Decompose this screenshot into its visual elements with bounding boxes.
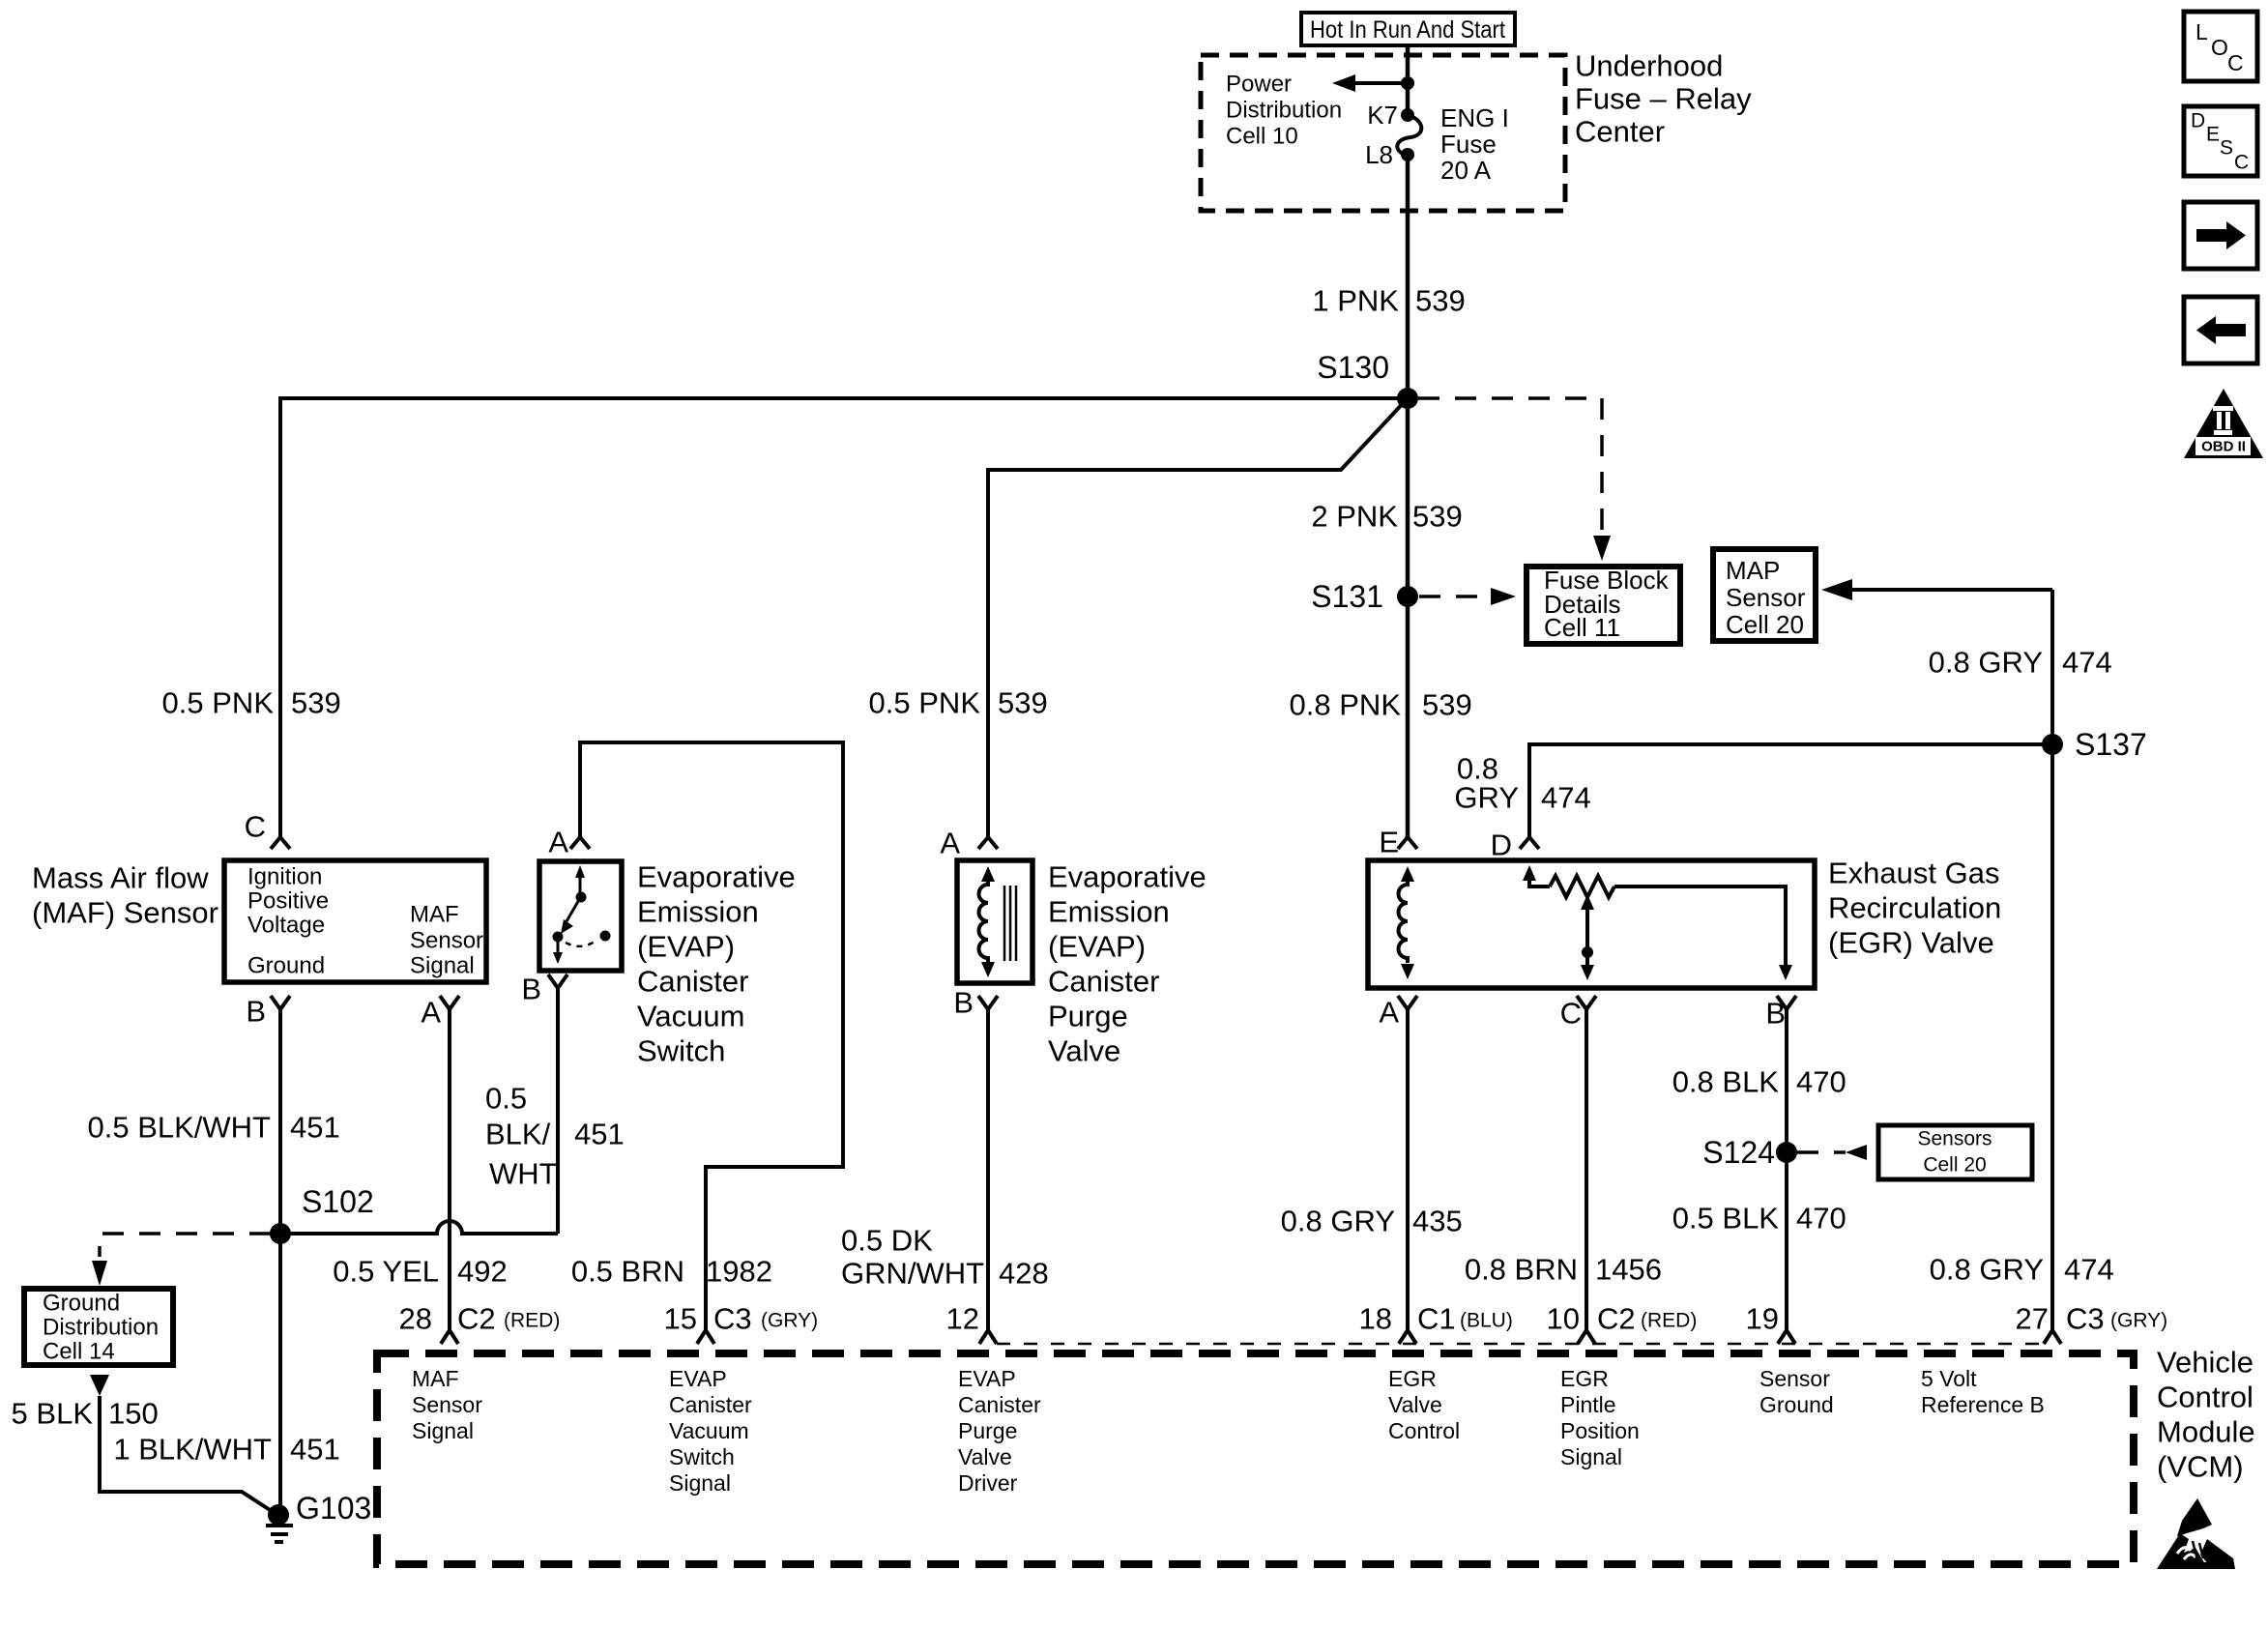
icon DESC — [2184, 106, 2257, 176]
svg-text:C: C — [2234, 152, 2249, 174]
svg-text:5 BLK: 5 BLK — [12, 1397, 94, 1431]
svg-text:(GRY): (GRY) — [2110, 1310, 2167, 1332]
svg-text:10: 10 — [1547, 1302, 1580, 1336]
svg-text:Mass Air flow: Mass Air flow — [32, 861, 209, 895]
VCM pin label EVAP Canister Purge Valve Driver — [958, 1366, 1041, 1496]
label 0.5 PNK 539 (purge valve) — [869, 686, 1048, 720]
svg-text:Emission: Emission — [1048, 895, 1170, 929]
svg-text:539: 539 — [1422, 688, 1472, 722]
svg-text:435: 435 — [1412, 1205, 1463, 1238]
svg-text:MAP: MAP — [1726, 556, 1780, 585]
MAP Sensor Cell 20 box — [1713, 549, 1816, 641]
node S130 — [1397, 388, 1418, 409]
Mass Air flow (MAF) Sensor title — [32, 861, 218, 930]
label 0.8 GRY 474 (lower, 5 volt reference) — [1930, 1253, 2114, 1287]
svg-text:G103: G103 — [296, 1491, 371, 1526]
icon arrow right — [2184, 202, 2257, 269]
svg-text:GRY: GRY — [1454, 781, 1519, 815]
label 0.5 BRN 1982 — [571, 1255, 772, 1289]
svg-text:0.8 BLK: 0.8 BLK — [1672, 1065, 1780, 1099]
svg-text:D: D — [1491, 829, 1512, 862]
Ground Distribution Cell 14 box — [24, 1289, 173, 1365]
EVAP canister purge valve title — [1048, 860, 1207, 1068]
svg-text:OBD II: OBD II — [2201, 439, 2246, 455]
wire 0.8 PNK 539 from S131 to EGR terminal E — [1406, 596, 1410, 837]
svg-text:Signal: Signal — [669, 1470, 731, 1496]
dashed arrow S124 to Sensors Cell 20 — [1797, 1145, 1867, 1160]
EVAP purge valve terminal B — [953, 986, 998, 1020]
MAF terminal C — [245, 810, 290, 850]
wire S137 branch to EGR terminal D — [1529, 744, 2052, 837]
label 5 BLK 150 — [12, 1397, 159, 1431]
svg-text:EVAP: EVAP — [669, 1366, 727, 1391]
svg-text:(GRY): (GRY) — [761, 1310, 818, 1332]
ground G103 — [266, 1491, 371, 1542]
svg-text:Distribution: Distribution — [43, 1315, 159, 1341]
Vehicle Control Module (VCM) dashed box — [377, 1353, 2134, 1564]
svg-text:Cell 10: Cell 10 — [1226, 124, 1298, 150]
svg-text:0.5 BLK/WHT: 0.5 BLK/WHT — [88, 1111, 272, 1145]
svg-text:E: E — [2206, 124, 2220, 146]
svg-text:5 Volt: 5 Volt — [1921, 1366, 1977, 1391]
svg-text:Valve: Valve — [958, 1444, 1012, 1469]
label 0.5 BLK 470 — [1672, 1202, 1846, 1236]
ESD sensitive device symbol — [2157, 1498, 2235, 1569]
Underhood Fuse-Relay Center title — [1575, 49, 1752, 149]
svg-text:S131: S131 — [1311, 579, 1383, 614]
Vehicle Control Module (VCM) title — [2157, 1346, 2255, 1484]
label 0.5 DK GRN/WHT 428 — [841, 1224, 1049, 1291]
svg-text:15: 15 — [664, 1302, 697, 1336]
VCM pin 28 C2 (RED) — [399, 1302, 561, 1345]
node S131 — [1397, 586, 1418, 607]
svg-text:474: 474 — [2064, 1253, 2114, 1287]
dashed arrow S131 to Fuse Block Details — [1419, 588, 1516, 605]
svg-text:Hot In Run And Start: Hot In Run And Start — [1310, 16, 1505, 44]
svg-text:(BLU): (BLU) — [1460, 1310, 1513, 1332]
svg-text:0.8 GRY: 0.8 GRY — [1929, 646, 2043, 680]
VCM pin label 5 Volt Reference B — [1921, 1366, 2045, 1417]
Power Distribution Cell 10 label — [1226, 72, 1342, 150]
svg-text:L: L — [2195, 19, 2208, 44]
svg-text:Cell 11: Cell 11 — [1544, 613, 1620, 642]
svg-text:Recirculation: Recirculation — [1828, 891, 2001, 925]
svg-text:(RED): (RED) — [504, 1310, 560, 1332]
svg-text:S: S — [2220, 137, 2233, 160]
EVAP canister vacuum switch title — [637, 860, 796, 1068]
EGR terminal C — [1560, 996, 1596, 1031]
label 0.8 GRY 435 — [1281, 1205, 1463, 1238]
junction dot at fuse feed — [1401, 76, 1414, 90]
fuse ENG I 20 A — [1365, 101, 1509, 185]
wire 5 BLK 150 from Ground Distribution to G103 — [90, 1375, 277, 1515]
svg-text:Cell 20: Cell 20 — [1726, 610, 1804, 639]
svg-text:S124: S124 — [1702, 1135, 1775, 1170]
svg-text:BLK/: BLK/ — [485, 1118, 551, 1151]
wire 0.8 BLK 470 / 0.5 BLK 470 from EGR B to VCM pin 19 — [1785, 1009, 1788, 1330]
wire from vacuum switch A up over to VCM pin 15 — [580, 742, 843, 1330]
svg-text:B: B — [521, 973, 541, 1006]
svg-text:474: 474 — [2062, 646, 2112, 680]
EGR valve title — [1828, 857, 2001, 960]
svg-text:1456: 1456 — [1595, 1253, 1662, 1287]
svg-text:C: C — [1560, 997, 1582, 1031]
wire 0.8 GRY 474 from MAP arrow down to VCM pin 27 — [2050, 590, 2054, 1330]
svg-text:(MAF) Sensor: (MAF) Sensor — [32, 896, 218, 930]
svg-text:A: A — [548, 826, 568, 859]
svg-text:451: 451 — [290, 1433, 340, 1467]
svg-text:Ground: Ground — [1759, 1392, 1834, 1417]
svg-text:2 PNK: 2 PNK — [1311, 500, 1398, 534]
VCM pin label EGR Pintle Position Signal — [1560, 1366, 1640, 1469]
vacuum switch symbol — [553, 865, 611, 964]
svg-text:Ignition: Ignition — [247, 864, 322, 890]
thin dashed connector line along VCM pins — [997, 1343, 2044, 1346]
svg-text:0.5 YEL: 0.5 YEL — [333, 1255, 439, 1289]
EGR terminal A — [1379, 996, 1417, 1030]
wire 0.5 BLK/WHT 451 from vacuum switch B to S102 — [556, 988, 560, 1234]
svg-text:Valve: Valve — [1048, 1034, 1120, 1068]
MAF Sensor box — [224, 860, 486, 982]
svg-text:E: E — [1379, 826, 1399, 859]
svg-text:27: 27 — [2016, 1302, 2049, 1336]
svg-text:(EGR) Valve: (EGR) Valve — [1828, 926, 1994, 960]
svg-text:S102: S102 — [302, 1184, 374, 1219]
label 1 BLK/WHT 451 — [113, 1433, 339, 1467]
svg-text:28: 28 — [399, 1302, 432, 1336]
svg-text:Sensors: Sensors — [1917, 1128, 1992, 1150]
svg-text:Driver: Driver — [958, 1470, 1018, 1496]
VCM pin label EGR Valve Control — [1388, 1366, 1460, 1443]
svg-text:Evaporative: Evaporative — [1048, 860, 1207, 894]
svg-text:Sensor: Sensor — [1759, 1366, 1830, 1391]
EGR terminal E — [1379, 826, 1417, 859]
svg-text:GRN/WHT: GRN/WHT — [841, 1257, 984, 1291]
svg-text:EGR: EGR — [1388, 1366, 1437, 1391]
svg-text:C2: C2 — [1597, 1302, 1636, 1336]
svg-text:C1: C1 — [1417, 1302, 1456, 1336]
EVAP purge valve terminal A — [940, 827, 998, 860]
svg-text:474: 474 — [1541, 781, 1591, 815]
svg-text:470: 470 — [1796, 1065, 1846, 1099]
Fuse Block Details Cell 11 box — [1527, 566, 1680, 644]
svg-text:Signal: Signal — [410, 953, 475, 979]
svg-text:0.5: 0.5 — [485, 1082, 527, 1116]
svg-text:Vehicle: Vehicle — [2157, 1346, 2253, 1380]
svg-text:Voltage: Voltage — [247, 913, 325, 939]
svg-text:WHT: WHT — [489, 1157, 558, 1191]
svg-text:Purge: Purge — [958, 1418, 1017, 1443]
svg-text:Switch: Switch — [637, 1034, 725, 1068]
svg-text:(EVAP): (EVAP) — [1048, 930, 1146, 964]
EGR terminal D — [1491, 829, 1539, 862]
svg-text:0.5 BLK: 0.5 BLK — [1672, 1202, 1780, 1236]
svg-text:Distribution: Distribution — [1226, 98, 1342, 124]
svg-text:Canister: Canister — [958, 1392, 1041, 1417]
svg-text:451: 451 — [290, 1111, 340, 1145]
svg-text:(VCM): (VCM) — [2157, 1450, 2244, 1484]
dashed arrow S102 to Ground Distribution Cell 14 — [92, 1234, 271, 1286]
label 0.8 BRN 1456 — [1465, 1253, 1662, 1287]
svg-text:539: 539 — [291, 686, 341, 720]
svg-text:1 BLK/WHT: 1 BLK/WHT — [113, 1433, 272, 1467]
node S124 — [1776, 1142, 1797, 1163]
svg-text:A: A — [421, 996, 441, 1030]
svg-text:Emission: Emission — [637, 895, 759, 929]
svg-text:Reference B: Reference B — [1921, 1392, 2045, 1417]
svg-text:C2: C2 — [457, 1302, 496, 1336]
svg-text:S130: S130 — [1317, 350, 1389, 385]
svg-text:Signal: Signal — [412, 1418, 474, 1443]
EVAP vacuum switch terminal B — [521, 973, 567, 1006]
svg-text:539: 539 — [1415, 284, 1466, 318]
svg-text:0.8 GRY: 0.8 GRY — [1281, 1205, 1395, 1238]
svg-text:451: 451 — [574, 1118, 625, 1151]
wire S102 to vacuum switch B with hop over MAF A wire — [280, 1221, 558, 1234]
icon OBD II triangle — [2184, 389, 2263, 458]
svg-text:Vacuum: Vacuum — [637, 1000, 744, 1033]
svg-text:A: A — [940, 827, 960, 860]
arrow to Power Distribution — [1332, 74, 1408, 92]
svg-text:Sensor: Sensor — [412, 1392, 482, 1417]
EGR terminal B — [1765, 996, 1796, 1031]
svg-text:Control: Control — [1388, 1418, 1460, 1443]
svg-text:0.5 PNK: 0.5 PNK — [162, 686, 275, 720]
svg-text:S137: S137 — [2075, 727, 2147, 762]
svg-text:C3: C3 — [713, 1302, 752, 1336]
svg-text:18: 18 — [1359, 1302, 1392, 1336]
svg-text:Power: Power — [1226, 72, 1292, 98]
label 1 PNK 539 — [1312, 284, 1465, 318]
svg-text:K7: K7 — [1367, 101, 1398, 130]
wire 2 PNK 539 from S130 to S131 — [1406, 398, 1410, 596]
EVAP canister purge valve box — [957, 860, 1032, 983]
svg-text:L8: L8 — [1365, 140, 1393, 169]
dashed arrow S130 to Fuse Block Details — [1418, 398, 1611, 561]
svg-text:0.5 BRN: 0.5 BRN — [571, 1255, 684, 1289]
svg-text:C: C — [245, 810, 266, 844]
svg-text:Canister: Canister — [637, 965, 748, 999]
svg-text:Underhood: Underhood — [1575, 49, 1723, 83]
wire S130 branch left 0.5 PNK 539 to MAF — [280, 398, 1408, 837]
VCM pin label EVAP Canister Vacuum Switch Signal — [669, 1366, 752, 1496]
wire 0.5 BLK/WHT 451 from MAF B to S102 — [278, 1009, 282, 1234]
svg-text:Cell 14: Cell 14 — [43, 1339, 115, 1365]
svg-text:Module: Module — [2157, 1415, 2255, 1449]
node S102 — [270, 1223, 291, 1244]
svg-text:Vacuum: Vacuum — [669, 1418, 749, 1443]
svg-text:Sensor: Sensor — [1726, 583, 1806, 612]
label 0.5 BLK/WHT 451 — [88, 1111, 340, 1145]
svg-text:Control: Control — [2157, 1381, 2253, 1414]
wire 0.8 GRY 435 from EGR A to VCM pin 18 — [1406, 1009, 1410, 1330]
svg-text:Positive: Positive — [247, 888, 329, 915]
EGR pintle position potentiometer — [1523, 865, 1792, 980]
svg-text:EGR: EGR — [1560, 1366, 1609, 1391]
svg-text:470: 470 — [1796, 1202, 1846, 1236]
wire from Hot In Run And Start into fuse — [1406, 45, 1410, 115]
arrow into MAP Sensor box from 5V reference wire — [1821, 579, 2052, 600]
svg-text:Center: Center — [1575, 115, 1665, 149]
svg-text:Pintle: Pintle — [1560, 1392, 1616, 1417]
wire 0.8 BRN 1456 from EGR C to VCM pin 10 — [1585, 1009, 1588, 1330]
label 0.8 BLK 470 — [1672, 1065, 1846, 1099]
wire S130 branch to EVAP purge valve 0.5 PNK 539 — [988, 398, 1408, 837]
svg-text:Switch: Switch — [669, 1444, 735, 1469]
VCM pin label MAF Sensor Signal — [412, 1366, 482, 1443]
wire 1 PNK 539 from fuse to S130 — [1406, 155, 1410, 398]
label 0.5 YEL 492 — [333, 1255, 507, 1289]
EGR solenoid coil — [1399, 866, 1415, 979]
Sensors Cell 20 box — [1878, 1125, 2032, 1179]
Underhood Fuse-Relay Center dashed box — [1201, 55, 1565, 211]
svg-text:0.8 BRN: 0.8 BRN — [1465, 1253, 1578, 1287]
VCM pin label Sensor Ground — [1759, 1366, 1834, 1417]
svg-text:B: B — [246, 995, 266, 1029]
svg-text:0.5 PNK: 0.5 PNK — [869, 686, 981, 720]
svg-text:539: 539 — [998, 686, 1048, 720]
VCM pin 27 C3 (GRY) — [2016, 1302, 2168, 1345]
VCM pin 12 — [946, 1302, 997, 1345]
svg-text:C: C — [2227, 50, 2244, 75]
svg-text:Fuse: Fuse — [1440, 130, 1497, 159]
svg-text:Valve: Valve — [1388, 1392, 1442, 1417]
svg-text:Sensor: Sensor — [410, 928, 483, 954]
svg-text:Position: Position — [1560, 1418, 1640, 1443]
svg-text:Ground: Ground — [247, 953, 325, 979]
svg-text:539: 539 — [1412, 500, 1463, 534]
svg-text:19: 19 — [1746, 1302, 1779, 1336]
svg-text:428: 428 — [999, 1257, 1049, 1291]
svg-text:O: O — [2211, 35, 2228, 60]
label 0.5 PNK 539 (MAF) — [162, 686, 341, 720]
label 0.8 PNK 539 — [1290, 688, 1472, 722]
svg-text:Evaporative: Evaporative — [637, 860, 796, 894]
label 0.8 GRY 474 (upper) — [1929, 646, 2112, 680]
purge valve solenoid coil — [979, 866, 1017, 977]
svg-text:Canister: Canister — [669, 1392, 752, 1417]
svg-text:MAF: MAF — [412, 1366, 459, 1391]
VCM pin 10 C2 (RED) — [1547, 1302, 1698, 1345]
svg-text:(EVAP): (EVAP) — [637, 930, 735, 964]
wire 0.5 YEL 492 from MAF A to VCM pin 28 — [448, 1009, 451, 1330]
EVAP canister vacuum switch box — [539, 861, 622, 971]
node S137 — [2042, 734, 2063, 755]
wire 1 BLK/WHT 451 from S102 to G103 — [278, 1234, 282, 1515]
svg-text:1 PNK: 1 PNK — [1312, 284, 1399, 318]
MAF terminal B — [246, 995, 290, 1029]
svg-text:A: A — [1379, 996, 1399, 1030]
svg-text:Cell 20: Cell 20 — [1923, 1154, 1986, 1177]
svg-text:12: 12 — [946, 1302, 979, 1336]
svg-text:Exhaust Gas: Exhaust Gas — [1828, 857, 1999, 890]
wire 0.5 DK GRN/WHT 428 from purge valve B to VCM pin 12 — [986, 1009, 990, 1330]
svg-text:0.5 DK: 0.5 DK — [841, 1224, 933, 1258]
VCM pin 18 C1 (BLU) — [1359, 1302, 1513, 1345]
label 0.8 GRY 474 (at terminal D) — [1454, 752, 1590, 815]
svg-text:Purge: Purge — [1048, 1000, 1128, 1033]
svg-text:Signal: Signal — [1560, 1444, 1622, 1469]
icon arrow left — [2184, 297, 2257, 363]
svg-text:(RED): (RED) — [1641, 1310, 1697, 1332]
svg-text:Canister: Canister — [1048, 965, 1159, 999]
MAF terminal A — [421, 996, 459, 1030]
svg-text:ENG I: ENG I — [1440, 103, 1509, 132]
svg-text:D: D — [2191, 110, 2205, 132]
EVAP canister vacuum switch terminal A — [548, 826, 590, 859]
icon LOC — [2184, 12, 2257, 81]
svg-text:C3: C3 — [2066, 1302, 2105, 1336]
svg-text:150: 150 — [108, 1397, 159, 1431]
svg-text:20 A: 20 A — [1440, 156, 1492, 185]
label 0.5 BLK/ WHT 451 (stacked) — [485, 1082, 625, 1191]
svg-text:1982: 1982 — [706, 1255, 772, 1289]
power source label "Hot In Run And Start" — [1301, 13, 1515, 45]
Exhaust Gas Recirculation (EGR) Valve box — [1368, 860, 1815, 988]
svg-text:MAF: MAF — [410, 902, 459, 928]
VCM pin 15 C3 (GRY) — [664, 1302, 819, 1345]
VCM pin 19 — [1746, 1302, 1795, 1345]
svg-text:0.8 GRY: 0.8 GRY — [1930, 1253, 2044, 1287]
svg-text:0.8 PNK: 0.8 PNK — [1290, 688, 1402, 722]
label 2 PNK 539 — [1311, 500, 1462, 534]
svg-text:492: 492 — [457, 1255, 508, 1289]
svg-text:B: B — [953, 986, 974, 1020]
svg-text:EVAP: EVAP — [958, 1366, 1016, 1391]
svg-text:Ground: Ground — [43, 1291, 120, 1317]
svg-text:Fuse – Relay: Fuse – Relay — [1575, 82, 1752, 116]
